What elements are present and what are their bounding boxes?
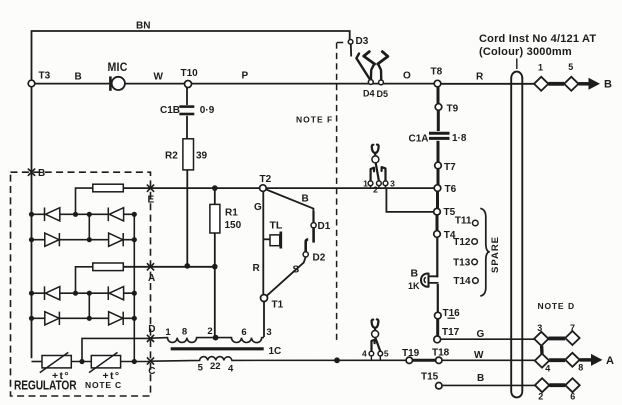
svg-text:T11: T11 <box>455 216 472 227</box>
svg-text:T7: T7 <box>444 162 456 173</box>
svg-text:S: S <box>293 265 300 276</box>
svg-text:NOTE: NOTE <box>538 301 565 311</box>
svg-text:7: 7 <box>570 323 575 333</box>
svg-text:R: R <box>476 72 484 83</box>
svg-text:3: 3 <box>390 179 395 189</box>
svg-text:2: 2 <box>373 185 378 195</box>
svg-text:T13: T13 <box>453 258 471 269</box>
svg-text:+t°: +t° <box>52 370 70 382</box>
svg-text:G: G <box>477 329 485 340</box>
svg-text:+t°: +t° <box>103 370 121 382</box>
svg-text:B: B <box>477 373 484 384</box>
svg-text:T17: T17 <box>442 327 460 338</box>
svg-text:MIC: MIC <box>108 61 128 74</box>
svg-text:6: 6 <box>570 392 575 402</box>
svg-text:W: W <box>154 72 164 83</box>
svg-text:39: 39 <box>196 151 208 162</box>
svg-text:5: 5 <box>198 363 204 374</box>
svg-text:B: B <box>604 79 612 91</box>
svg-text:D4: D4 <box>363 89 375 99</box>
svg-text:D: D <box>148 324 155 335</box>
svg-text:1C: 1C <box>269 346 282 357</box>
svg-text:T9: T9 <box>447 104 459 115</box>
svg-text:R1: R1 <box>225 208 238 219</box>
svg-text:A: A <box>606 355 614 367</box>
svg-text:4: 4 <box>545 364 550 374</box>
svg-text:T18: T18 <box>432 348 450 359</box>
svg-text:Cord Inst No 4/121 AT: Cord Inst No 4/121 AT <box>479 33 596 45</box>
svg-text:T12: T12 <box>453 237 471 248</box>
svg-text:G: G <box>254 202 262 213</box>
svg-text:T16: T16 <box>443 308 461 319</box>
svg-text:B: B <box>38 168 45 179</box>
svg-text:R: R <box>253 263 261 274</box>
svg-text:150: 150 <box>225 220 242 231</box>
svg-text:T10: T10 <box>181 68 199 79</box>
svg-text:C1A: C1A <box>409 134 429 145</box>
svg-text:T2: T2 <box>260 174 272 185</box>
svg-text:R2: R2 <box>165 151 178 162</box>
svg-text:T8: T8 <box>431 67 443 78</box>
svg-text:C: C <box>148 366 155 377</box>
svg-text:BN: BN <box>136 21 150 32</box>
svg-text:T5: T5 <box>444 207 456 218</box>
svg-text:2: 2 <box>207 326 212 337</box>
svg-text:22: 22 <box>210 361 221 372</box>
svg-text:T6: T6 <box>445 184 457 195</box>
svg-text:4: 4 <box>228 364 234 375</box>
svg-text:D1: D1 <box>318 221 331 232</box>
svg-text:D: D <box>568 301 574 311</box>
svg-text:D5: D5 <box>377 89 389 99</box>
svg-text:2: 2 <box>538 392 543 402</box>
svg-text:A: A <box>148 273 155 284</box>
svg-text:F: F <box>327 115 332 125</box>
svg-text:T15: T15 <box>421 372 439 383</box>
svg-text:NOTE: NOTE <box>296 115 324 125</box>
svg-text:C1B: C1B <box>160 105 180 116</box>
svg-text:5: 5 <box>384 349 389 359</box>
svg-text:SPARE: SPARE <box>490 236 501 273</box>
svg-text:1: 1 <box>363 179 368 189</box>
svg-text:0·9: 0·9 <box>200 105 215 116</box>
svg-text:O: O <box>403 71 411 82</box>
svg-text:T14: T14 <box>453 276 471 287</box>
svg-text:6: 6 <box>241 327 246 338</box>
svg-text:4: 4 <box>362 349 367 359</box>
svg-text:D3: D3 <box>356 36 369 47</box>
svg-text:1K: 1K <box>408 281 420 291</box>
svg-text:5: 5 <box>568 62 573 72</box>
svg-text:P: P <box>242 71 249 82</box>
svg-text:1: 1 <box>165 327 171 338</box>
svg-text:E: E <box>148 195 155 206</box>
svg-text:1: 1 <box>538 63 543 73</box>
svg-text:W: W <box>474 350 484 361</box>
svg-text:3: 3 <box>537 323 542 333</box>
svg-text:8: 8 <box>578 363 583 373</box>
svg-text:8: 8 <box>182 327 187 338</box>
svg-text:B: B <box>75 72 82 83</box>
svg-text:1·8: 1·8 <box>452 133 467 144</box>
svg-text:T1: T1 <box>272 300 284 311</box>
svg-text:T3: T3 <box>39 71 51 82</box>
svg-text:B: B <box>302 194 309 205</box>
svg-text:D2: D2 <box>313 253 326 264</box>
svg-text:B: B <box>411 268 419 280</box>
svg-text:3: 3 <box>266 327 271 338</box>
svg-text:TL: TL <box>270 220 283 232</box>
svg-text:T19: T19 <box>402 348 420 359</box>
svg-text:(Colour) 3000mm: (Colour) 3000mm <box>479 46 572 58</box>
